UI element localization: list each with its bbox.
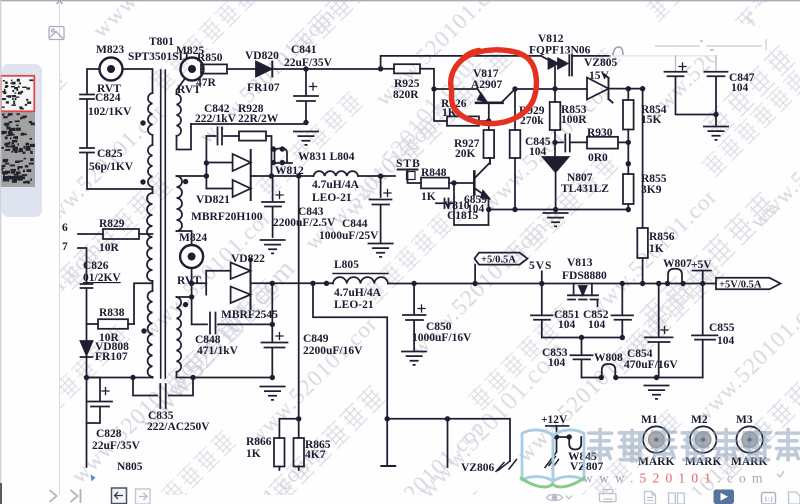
svg-text:W808: W808 — [594, 352, 623, 364]
svg-text:N805: N805 — [117, 461, 143, 473]
wire feedback vertical — [298, 176, 300, 438]
svg-text:T801: T801 — [149, 36, 174, 48]
wire stub — [447, 419, 449, 467]
jumper W808 — [582, 364, 619, 380]
svg-text:+5/0.5A: +5/0.5A — [481, 255, 516, 266]
ground 5V rail — [644, 386, 670, 399]
svg-text:RVT: RVT — [177, 84, 201, 96]
winding phase dots — [140, 120, 145, 125]
svg-text:104: 104 — [588, 319, 606, 331]
wire M824 bottom — [177, 269, 192, 298]
wire C824 to C825 — [86, 100, 88, 148]
capacitor C853 — [571, 338, 593, 378]
svg-text:470uF/16V: 470uF/16V — [624, 359, 678, 371]
mark jack M3 — [736, 426, 762, 452]
capacitor C851 — [531, 284, 622, 338]
svg-text:V813: V813 — [567, 257, 593, 269]
svg-text:104: 104 — [731, 82, 749, 94]
resistor R926 — [434, 89, 489, 126]
svg-text:C849: C849 — [303, 333, 329, 345]
resistor R865 — [294, 438, 305, 470]
svg-text:LEO-21: LEO-21 — [334, 299, 374, 311]
capacitor C847 — [705, 56, 728, 125]
logo open book icon — [522, 430, 584, 482]
jumper W845 — [569, 437, 581, 450]
svg-text:C855: C855 — [709, 322, 735, 334]
toolbar printer icon — [600, 490, 617, 503]
svg-text:L805: L805 — [334, 259, 359, 271]
capacitor C826 — [81, 284, 93, 288]
svg-text:R856: R856 — [649, 231, 675, 243]
resistor R927 — [484, 118, 495, 164]
transformer T801 core — [161, 70, 166, 378]
svg-text:15V: 15V — [589, 70, 610, 82]
svg-text:M1: M1 — [641, 414, 658, 426]
wire +5V tap — [693, 271, 712, 287]
T801 winding mid (to M824) — [177, 176, 183, 231]
svg-text:M824: M824 — [179, 232, 207, 244]
svg-text:5VS: 5VS — [529, 260, 552, 272]
toolbar page icon right — [789, 492, 800, 504]
svg-text:270k: 270k — [520, 115, 544, 127]
svg-text:1:1: 1:1 — [764, 495, 774, 504]
bottom left edge mark — [0, 483, 2, 504]
svg-text:M3: M3 — [736, 414, 753, 426]
transistor V819 — [474, 158, 490, 225]
capacitor C850 — [403, 284, 426, 351]
wire ground rail 5V — [616, 377, 703, 379]
svg-text:MBRF20H100: MBRF20H100 — [191, 211, 263, 223]
terminal lower — [381, 419, 395, 466]
svg-text:3K9: 3K9 — [641, 184, 662, 196]
svg-text:7: 7 — [62, 241, 68, 253]
svg-text:1K: 1K — [421, 191, 436, 203]
capacitor C855 — [692, 284, 718, 378]
toolbar document icon — [645, 492, 656, 504]
resistor R930 — [587, 137, 628, 149]
ghost scribble near erased area — [613, 47, 623, 55]
nav box forward — [136, 489, 151, 504]
svg-text:RVT: RVT — [177, 275, 201, 287]
capacitor C841 — [294, 69, 318, 124]
svg-text:1K: 1K — [246, 448, 261, 460]
toolbar pages icon — [669, 493, 685, 504]
resistor R855 — [623, 174, 634, 210]
zener VZ805 — [587, 75, 643, 103]
svg-text:22R/2W: 22R/2W — [238, 113, 279, 125]
zener VZ807 — [545, 437, 559, 469]
svg-text:R850: R850 — [197, 52, 223, 64]
svg-text:VZ805: VZ805 — [584, 57, 617, 69]
svg-text:MBRF2545: MBRF2545 — [221, 309, 278, 321]
jumper W807 — [665, 269, 686, 286]
dual diode VD822 — [192, 259, 251, 309]
svg-text:104: 104 — [548, 357, 566, 369]
svg-text:+5V/0.5A: +5V/0.5A — [719, 280, 762, 291]
toolbar eye icon — [547, 495, 573, 501]
ground C844 — [368, 244, 394, 257]
svg-text:W807: W807 — [663, 258, 692, 270]
wire C825 to winding bottom — [87, 153, 152, 189]
T801 winding bottom right — [177, 297, 182, 372]
zener V810 — [436, 199, 454, 209]
svg-text:1000uF/25V: 1000uF/25V — [319, 230, 379, 242]
terminal STB — [398, 170, 421, 184]
svg-text:C841: C841 — [291, 44, 317, 56]
svg-text:56p/1KV: 56p/1KV — [89, 161, 134, 173]
svg-text:VZ806: VZ806 — [461, 462, 494, 474]
svg-text:STB: STB — [396, 158, 421, 170]
zener VZ806 — [496, 460, 517, 472]
top chrome bar — [0, 0, 800, 2]
white smudge patches top right — [520, 0, 800, 60]
svg-text:10R: 10R — [99, 242, 120, 254]
jumper W831 — [271, 146, 292, 165]
svg-text:22uF/35V: 22uF/35V — [92, 440, 141, 452]
ground C843 — [260, 240, 286, 253]
capacitor C854 — [645, 281, 673, 378]
small blue marker — [91, 475, 96, 482]
capacitor C825 — [80, 148, 94, 153]
capacitor C835 — [133, 378, 193, 409]
wire VD820 to C841 and V812 riser — [272, 68, 380, 70]
svg-text:R848: R848 — [421, 167, 447, 179]
nav box back — [112, 488, 127, 504]
inductor L805 — [333, 274, 388, 284]
resistor R866 — [274, 419, 299, 470]
svg-text:M823: M823 — [96, 44, 124, 56]
svg-text:FR107: FR107 — [247, 82, 280, 94]
jack M823 — [100, 58, 123, 81]
svg-text:22uF/35V: 22uF/35V — [284, 57, 333, 69]
resistor R854 — [623, 89, 634, 174]
jack M824 — [180, 245, 203, 268]
wire L805 to 5V rail — [388, 283, 716, 285]
svg-text:FR107: FR107 — [95, 351, 128, 363]
banner +5V/0.5A — [716, 278, 781, 290]
svg-text:4.7uH/4A: 4.7uH/4A — [334, 287, 382, 299]
svg-text:20K: 20K — [455, 148, 476, 160]
svg-text:C824: C824 — [95, 92, 121, 104]
resistor R838 — [87, 319, 135, 329]
left thumbnail panel — [2, 64, 43, 217]
wire V817 collector rail — [515, 88, 587, 90]
wire secondary return — [177, 372, 273, 378]
svg-text:2200uF/16V: 2200uF/16V — [303, 345, 363, 357]
red hand-drawn circle highlight — [451, 50, 537, 124]
wire +12V net — [546, 426, 572, 440]
wire VD821 cathode to node — [251, 175, 272, 177]
resistor R925 — [381, 64, 434, 89]
svg-text:102/1KV: 102/1KV — [88, 106, 132, 118]
svg-text:TL431LZ: TL431LZ — [561, 183, 609, 195]
svg-text:0R0: 0R0 — [588, 152, 608, 164]
svg-text:M2: M2 — [691, 414, 708, 426]
wire C826 to R838 — [86, 289, 88, 341]
resistor R829 — [78, 229, 153, 239]
toolbar play button — [714, 490, 735, 504]
capacitor C843 — [262, 176, 284, 237]
svg-text:C828: C828 — [96, 428, 122, 440]
T801 primary winding left — [147, 93, 153, 377]
logo green swoosh — [520, 478, 585, 487]
resistor R853 — [550, 89, 561, 157]
wire node W812 vertical — [271, 149, 273, 176]
svg-text:222/AC250V: 222/AC250V — [147, 421, 210, 433]
svg-text:VD820: VD820 — [245, 50, 279, 62]
diode VD820 — [256, 62, 272, 77]
wire 5VS sense line — [313, 283, 387, 419]
svg-text:LEO-21: LEO-21 — [312, 192, 352, 204]
ground C841 — [293, 132, 319, 145]
wire R838 to winding tap — [134, 283, 153, 324]
resistor R929 — [510, 89, 521, 210]
diode VD808 — [81, 341, 93, 357]
svg-text:4K7: 4K7 — [305, 449, 326, 461]
capacitor C824 — [80, 95, 94, 100]
svg-text:MARK: MARK — [638, 456, 674, 468]
svg-text:15K: 15K — [641, 114, 662, 126]
mark jack M2 — [690, 426, 716, 452]
capacitor C845 — [555, 135, 587, 152]
svg-text:W812: W812 — [275, 165, 304, 177]
capacitor C828 — [87, 378, 113, 424]
svg-text:471/1kV: 471/1kV — [197, 345, 239, 357]
wire secondary-top to ground rail — [177, 124, 192, 150]
wire primary bottom — [87, 377, 153, 379]
page left edge — [59, 1, 61, 495]
svg-text:R838: R838 — [99, 307, 125, 319]
ground C846 C847 — [703, 127, 729, 140]
svg-text:FQPF13N06: FQPF13N06 — [529, 45, 591, 57]
resistor R850 — [201, 64, 256, 73]
capacitor C844 — [370, 176, 392, 242]
svg-text:R829: R829 — [99, 218, 125, 230]
wire V819 emitter loop — [454, 183, 489, 225]
svg-text:01/2KV: 01/2KV — [83, 272, 121, 284]
capacitor C848 — [192, 299, 273, 334]
svg-text:+12V: +12V — [541, 414, 568, 426]
wire ground rail C841 — [191, 123, 306, 125]
wire snubber left vertical — [205, 136, 207, 189]
svg-text:820R: 820R — [393, 89, 419, 101]
mosfet V813 — [568, 284, 598, 307]
svg-text:104: 104 — [529, 146, 547, 158]
transistor V817 — [434, 89, 515, 121]
wire faint erased rail — [610, 55, 716, 57]
wire top rail to V812 — [381, 56, 541, 69]
capacitor C849 — [262, 283, 288, 377]
svg-text:222/1kV: 222/1kV — [195, 113, 237, 125]
svg-text:VD822: VD822 — [231, 253, 265, 265]
mark jack M1 — [643, 426, 669, 452]
svg-text:1K: 1K — [649, 243, 664, 255]
svg-text:2200uF/2.5V: 2200uF/2.5V — [273, 217, 336, 229]
wire M825 to secondary top — [177, 79, 186, 95]
ground C849 — [260, 375, 286, 400]
nav chevron last — [71, 489, 81, 503]
svg-text:W831 L804: W831 L804 — [298, 151, 355, 163]
wire M823 left branch top — [87, 69, 100, 93]
resistor R856 — [637, 89, 648, 286]
svg-text:A2907: A2907 — [471, 79, 503, 91]
wire lower sense rail — [387, 419, 510, 461]
wire lower rail — [489, 209, 629, 211]
svg-text:V812: V812 — [538, 33, 564, 45]
nav chevron next — [50, 490, 57, 502]
svg-text:VD821: VD821 — [196, 194, 230, 206]
svg-text:1000uF/16V: 1000uF/16V — [412, 332, 472, 344]
svg-text:C826: C826 — [83, 260, 109, 272]
svg-text:4.7uH/4A: 4.7uH/4A — [312, 179, 360, 191]
svg-text:104: 104 — [558, 319, 576, 331]
wire VD822 cathode to L805 — [251, 282, 334, 284]
dual diode VD821 — [206, 150, 250, 200]
wire 5VS node — [541, 272, 543, 284]
svg-text:R866: R866 — [246, 436, 272, 448]
wire pin7 — [78, 248, 87, 283]
jack M825 — [181, 58, 204, 81]
wire 2.5V output rail — [272, 175, 314, 177]
svg-text:100R: 100R — [561, 114, 587, 126]
svg-text:FDS8880: FDS8880 — [562, 270, 607, 282]
svg-text:C844: C844 — [342, 218, 368, 230]
svg-text:+5V: +5V — [691, 259, 712, 271]
ground N807 — [543, 213, 569, 226]
wire VD808 down — [86, 355, 88, 467]
ground C850 — [401, 352, 427, 365]
inductor L804 — [314, 171, 358, 176]
wire L804 to C844 node — [358, 175, 395, 177]
resistor R848 — [421, 178, 474, 189]
image placeholder icon top-left — [49, 27, 64, 40]
wire M823 to T801 — [123, 69, 153, 93]
snubber C842 R928 — [206, 128, 271, 150]
toolbar 1:1 icon — [762, 493, 776, 504]
shunt N807 TL431 — [543, 157, 569, 210]
svg-text:104: 104 — [717, 335, 735, 347]
capacitor C846 — [665, 56, 717, 115]
svg-text:C1815: C1815 — [447, 210, 479, 222]
svg-text:R930: R930 — [587, 127, 613, 139]
mosfet V812 — [541, 55, 610, 89]
logo chinese characters — [589, 428, 800, 461]
T801 secondary winding top — [177, 94, 182, 136]
svg-text:www.520101.com: www.520101.com — [583, 471, 769, 486]
svg-text:C825: C825 — [97, 148, 123, 160]
capacitor C852 — [612, 281, 634, 338]
banner +5/0.5A — [475, 253, 528, 284]
svg-text:6: 6 — [62, 222, 68, 234]
